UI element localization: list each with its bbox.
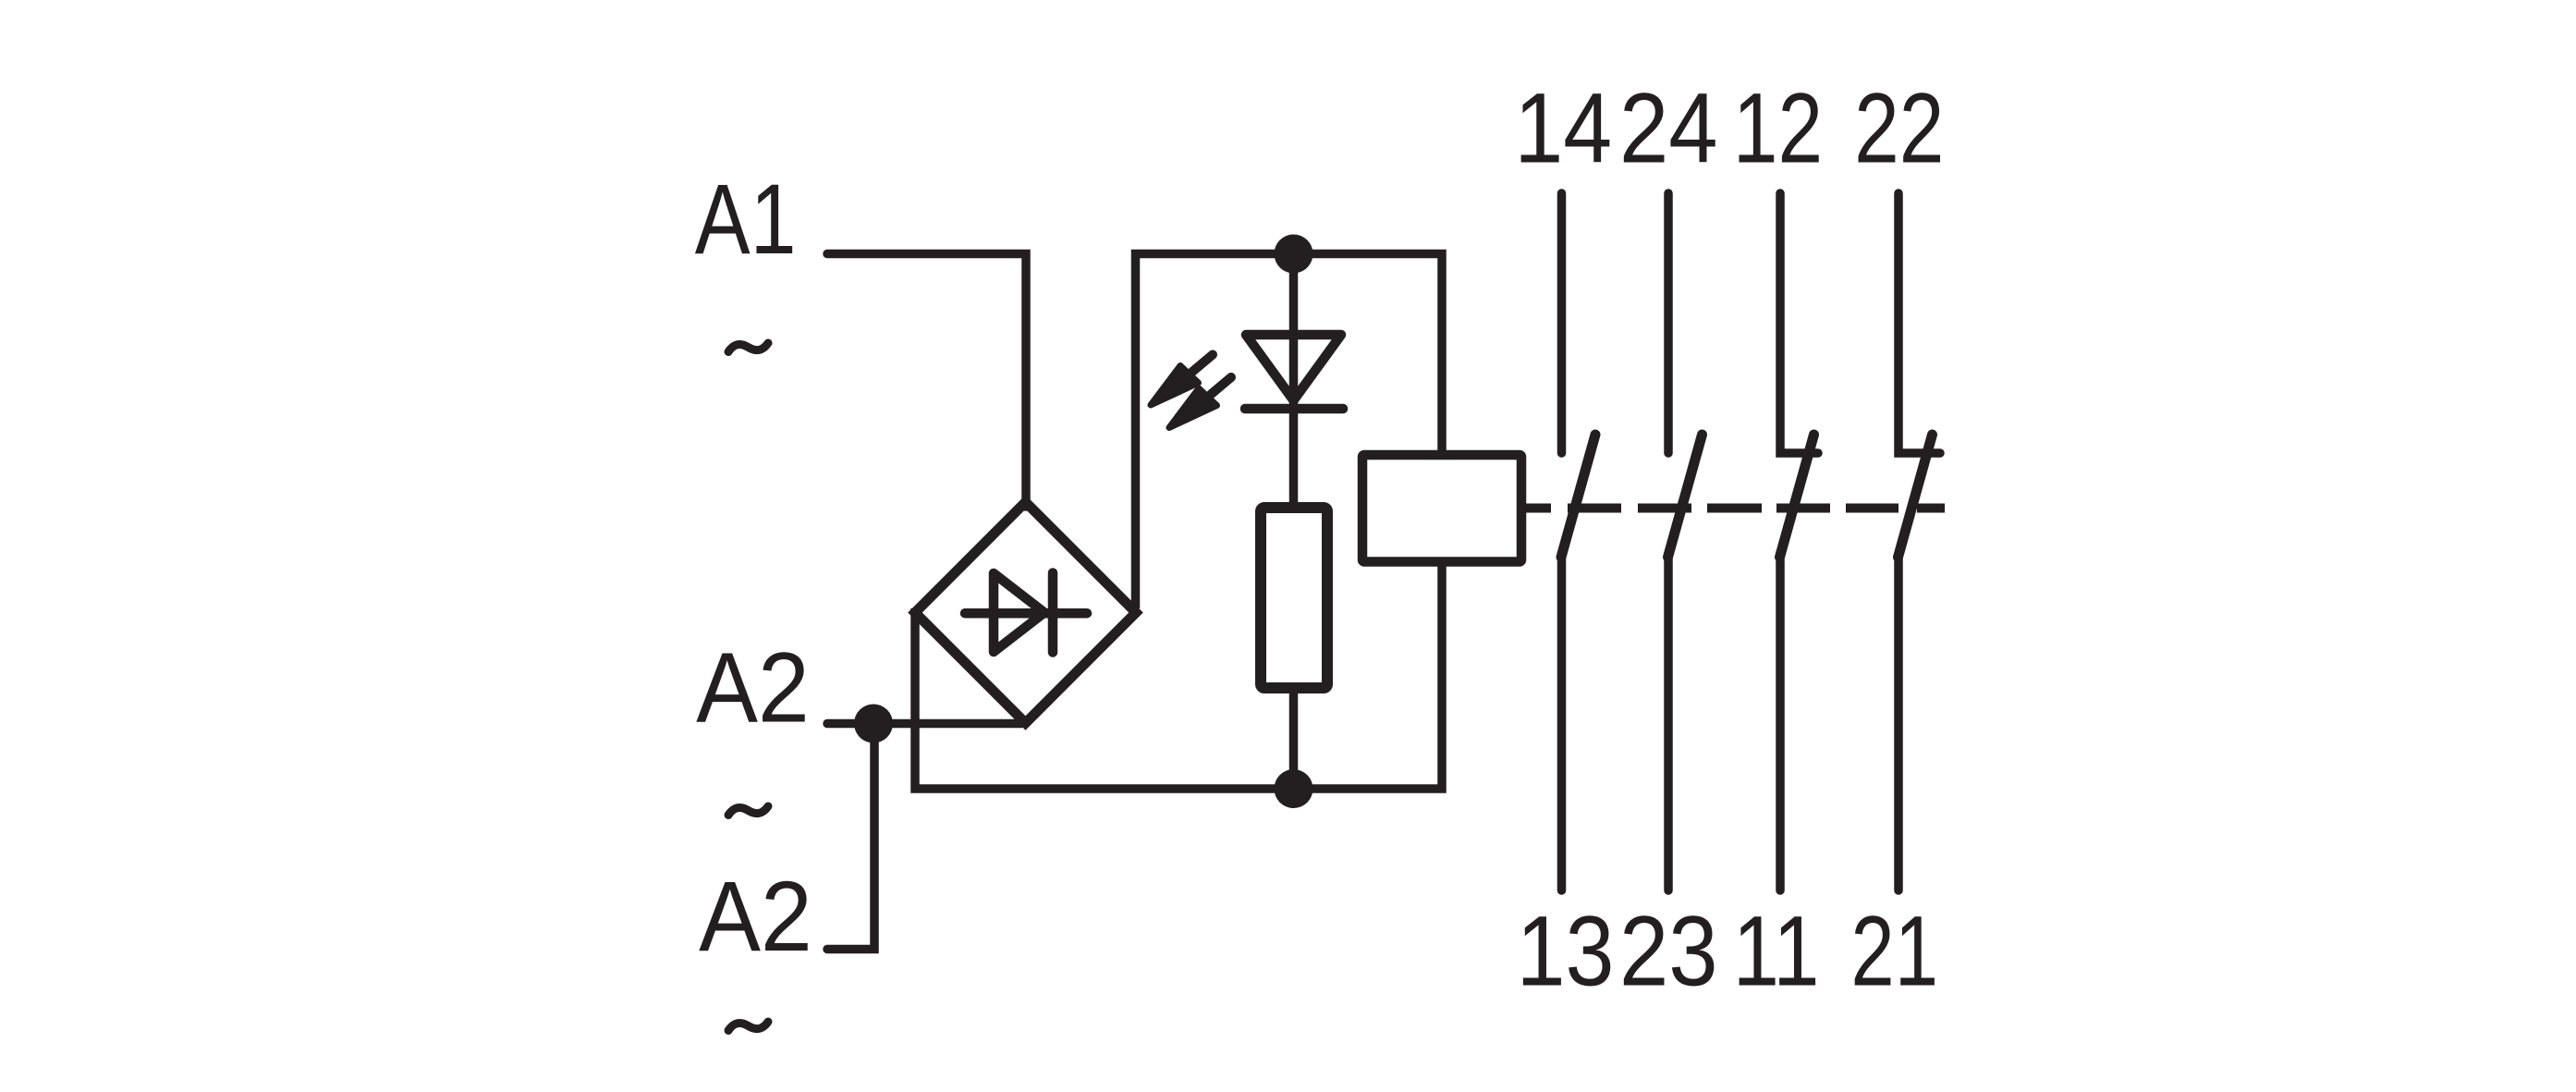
AC tilde symbol 1 (728, 343, 768, 352)
svg-text:14: 14 (1514, 72, 1612, 184)
bridge inner diode cathode bar (1048, 573, 1058, 653)
bridge inner diode axis (965, 608, 1087, 619)
svg-text:12: 12 (1733, 72, 1823, 184)
svg-text:11: 11 (1733, 895, 1820, 1007)
contact 22-21 NC mover (1898, 435, 1933, 558)
contact 24-23 NO mover (1668, 435, 1703, 558)
contact 14-13 NO mover (1561, 435, 1595, 558)
node A2 junction dot (854, 705, 893, 743)
wire A1 to bridge top (827, 254, 1026, 508)
contact 22-21 NC lower wire (1894, 558, 1903, 890)
contact 14-13 NO upper wire (1557, 193, 1567, 453)
wire bridge right vertex to top rail to relay coil top (1136, 254, 1443, 609)
wire resistor bottom to bottom rail (1289, 688, 1299, 789)
wire A2 to bridge bottom vertex (827, 719, 1021, 729)
AC tilde symbol 3 (728, 1022, 768, 1031)
svg-text:22: 22 (1854, 72, 1944, 184)
LED light arrow 1 (1151, 355, 1213, 406)
svg-text:23: 23 (1619, 895, 1718, 1007)
wire LED branch upper (1289, 254, 1299, 509)
svg-text:A2: A2 (699, 860, 812, 972)
contact 22-21 NC upper wire with seat bar (1898, 193, 1940, 453)
contact 12-11 NC lower wire (1776, 558, 1785, 890)
contact 14-13 NO lower wire (1557, 558, 1567, 890)
wire A2 second terminal up to node A2 (827, 724, 874, 950)
bridge rectifier diamond (915, 502, 1136, 723)
contact 12-11 NC mover (1780, 435, 1814, 558)
svg-text:A2: A2 (696, 632, 810, 743)
LED light arrow 2 (1169, 377, 1231, 428)
svg-text:A1: A1 (695, 163, 797, 275)
AC tilde symbol 2 (728, 806, 768, 816)
contact 24-23 NO upper wire (1664, 193, 1673, 453)
contact 12-11 NC upper wire with seat bar (1780, 193, 1818, 453)
resistor R1 body (1261, 508, 1327, 688)
dashed actuator linkage (1525, 504, 1945, 513)
wire bridge left vertex down to bottom rail to relay coil bottom (915, 561, 1442, 789)
LED D1 cathode bar (1245, 404, 1343, 414)
contact 24-23 NO lower wire (1664, 558, 1673, 890)
relay coil K1 body (1362, 455, 1521, 562)
svg-text:13: 13 (1517, 895, 1615, 1007)
bridge inner diode triangle (994, 573, 1044, 652)
svg-text:21: 21 (1850, 895, 1938, 1007)
node junction dot top rail (1275, 235, 1313, 274)
LED D1 triangle (1246, 335, 1341, 400)
node junction dot bottom rail (1275, 769, 1313, 808)
svg-text:24: 24 (1619, 72, 1718, 184)
